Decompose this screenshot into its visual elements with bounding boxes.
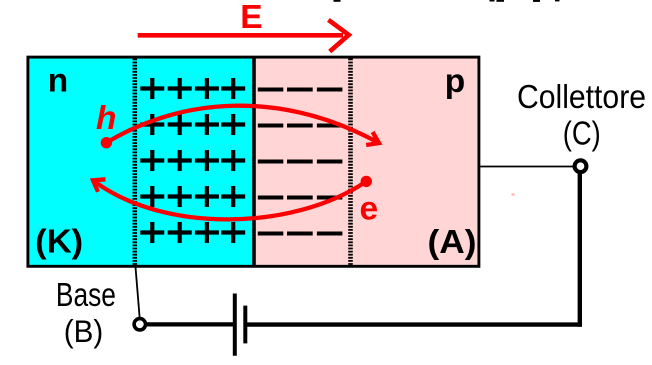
hole path arrowhead bbox=[366, 132, 379, 145]
svg-text:E: E bbox=[240, 0, 262, 36]
junction divider line bbox=[252, 57, 256, 267]
svg-text:(B): (B) bbox=[64, 313, 104, 349]
svg-text:e: e bbox=[360, 190, 379, 227]
E field arrow bbox=[138, 20, 349, 52]
collector terminal circle (C) bbox=[575, 160, 587, 172]
wire: thin base lead from depletion line down bbox=[136, 267, 140, 317]
negative space charges (- grid) bbox=[258, 90, 343, 234]
base terminal circle (B) bbox=[134, 319, 145, 330]
wire: base terminal to battery bbox=[146, 322, 233, 326]
battery B1: long plate bbox=[233, 294, 237, 356]
svg-text:(K): (K) bbox=[35, 224, 83, 261]
wire: thick bottom run from battery to collector bbox=[247, 322, 582, 326]
top edge text fragments bbox=[334, 0, 560, 2]
svg-text:n: n bbox=[48, 62, 68, 99]
electron path arrowhead bbox=[93, 179, 106, 192]
diode box outline bbox=[28, 57, 479, 266]
depletion boundary dotted line (right, in p) bbox=[348, 59, 353, 266]
stray red smudge bbox=[512, 194, 515, 196]
depletion boundary dotted line (left, in n) bbox=[133, 59, 138, 266]
hole drift path (red curve to p side) bbox=[106, 106, 379, 143]
p region (pink) bbox=[254, 57, 480, 267]
wire: collector thin lead from p region to C terminal bbox=[480, 166, 573, 168]
n region (cyan) bbox=[28, 57, 254, 267]
wire: thick collector down bbox=[578, 173, 582, 327]
positive space charges (+ grid) bbox=[140, 78, 245, 243]
svg-text:(A): (A) bbox=[428, 224, 477, 261]
battery B1: short plate bbox=[243, 306, 247, 344]
svg-text:Collettore: Collettore bbox=[517, 78, 646, 115]
svg-text:(C): (C) bbox=[563, 115, 601, 152]
hole dot h bbox=[101, 137, 112, 148]
electron drift path (red curve to n side) bbox=[93, 180, 366, 219]
svg-text:p: p bbox=[445, 63, 465, 100]
svg-text:h: h bbox=[96, 100, 116, 137]
svg-text:Base: Base bbox=[56, 276, 116, 313]
electron dot e bbox=[361, 176, 372, 187]
